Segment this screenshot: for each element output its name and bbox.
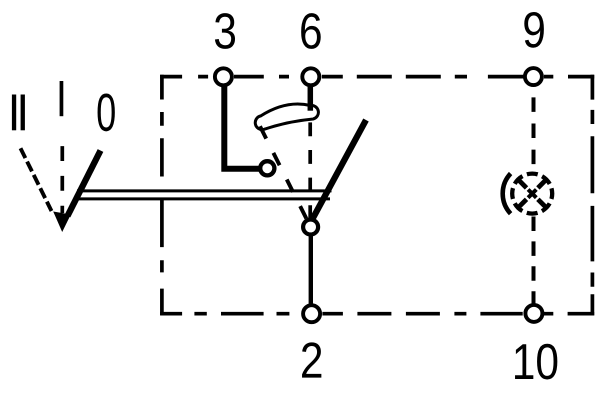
position I dashed line xyxy=(60,146,64,213)
wire terminal 3 to contact (L shape) xyxy=(224,84,262,169)
label 3 xyxy=(215,13,235,49)
lamp spoke NE xyxy=(538,179,547,188)
enclosure border left xyxy=(160,75,164,316)
terminal 3 xyxy=(215,68,232,85)
label 9 xyxy=(524,12,544,48)
actuator lever left xyxy=(68,151,101,217)
wire lamp to terminal 10 (dashed) xyxy=(532,217,536,306)
terminal 9 xyxy=(525,68,542,85)
switch lever right xyxy=(313,120,366,218)
terminal 6 xyxy=(302,68,319,85)
enclosure border right xyxy=(591,75,595,316)
linkage double bar lower xyxy=(78,197,331,200)
dashed line position II (capsule end to pivot) xyxy=(260,126,311,227)
wire pivot to terminal 2 xyxy=(309,230,313,310)
wire terminal 9 to lamp (dashed) xyxy=(532,97,536,164)
lamp centre cross xyxy=(528,190,536,198)
position II dashed line xyxy=(21,148,52,211)
label 6 xyxy=(301,13,321,49)
spring capsule symbol xyxy=(255,104,318,130)
wire terminal 6 stub xyxy=(308,84,314,111)
label 2 xyxy=(302,342,321,377)
label 0 xyxy=(98,93,115,131)
label 10 xyxy=(515,344,557,380)
actuator arrowhead xyxy=(53,212,71,233)
terminal 2 xyxy=(303,305,320,322)
terminal 10 xyxy=(525,305,542,322)
enclosure border bottom xyxy=(160,312,594,316)
linkage double bar upper xyxy=(77,189,332,192)
dashed line position I (terminal 6 to pivot) xyxy=(308,122,312,219)
contact node xyxy=(260,161,274,175)
lamp spoke SW xyxy=(518,199,527,208)
enclosure border top xyxy=(160,75,594,79)
lamp spoke SE xyxy=(538,199,547,208)
lamp dashed circle xyxy=(512,174,552,214)
lamp spoke NW xyxy=(518,179,527,188)
label I xyxy=(60,81,64,116)
lamp reflector arc xyxy=(503,174,511,214)
label II xyxy=(12,95,25,131)
pivot node xyxy=(303,220,318,235)
